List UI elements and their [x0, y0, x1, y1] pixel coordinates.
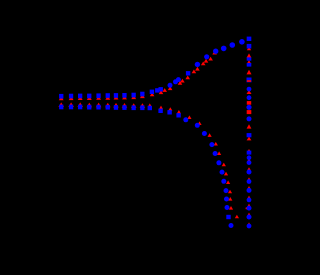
series: lower branch blue markers [148, 106, 234, 228]
series: upper branch red triangles [150, 51, 217, 96]
series: lower branch red triangles [148, 103, 239, 218]
red stripe on column square [247, 80, 251, 82]
stray red dot near column [246, 207, 248, 209]
series: upper band red triangles [59, 94, 145, 100]
series: vertical column red triangles [247, 47, 252, 226]
series: upper band blue squares [59, 92, 144, 99]
series: lower band blue squares [59, 105, 144, 111]
series: upper branch blue markers [150, 39, 245, 94]
series: vertical column blue markers [246, 37, 251, 229]
series: lower band red triangles [58, 102, 145, 107]
